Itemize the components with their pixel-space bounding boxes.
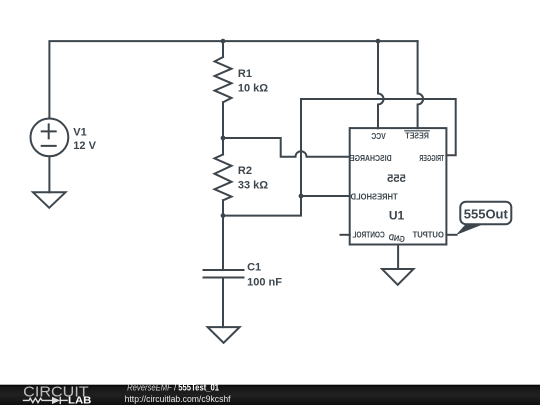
node dot threshold [299,194,304,199]
svg-text:U1: U1 [389,209,405,223]
wire R2 bottom [222,200,224,215]
svg-text:10 kΩ: 10 kΩ [238,82,268,94]
svg-text:555: 555 [387,173,406,185]
node dot rail-R1 [221,39,226,44]
svg-text:http://circuitlab.com/c9kcshf: http://circuitlab.com/c9kcshf [125,393,231,404]
wire CONTROL stub [341,234,350,236]
wire discharge net [223,138,350,157]
wire VCC vertical with hop [378,41,384,128]
wire top rail [49,41,417,118]
op-amp U1 555 body [350,128,447,244]
wire R2 top stub [222,138,224,155]
svg-text:OUTPUT: OUTPUT [412,229,444,239]
flag 555Out box [460,202,511,225]
svg-text:ReverseEMF / 555Test_01: ReverseEMF / 555Test_01 [127,382,219,393]
wire threshold branch [301,195,350,197]
voltage source V1 wire top [48,117,50,119]
flag 555Out tail [456,224,483,235]
RESET overline [405,130,429,132]
svg-text:100 nF: 100 nF [247,276,282,288]
capacitor C1 [204,270,244,278]
svg-text:12 V: 12 V [73,140,96,152]
ground below V1 [33,192,66,208]
wire R1 top stub [222,41,224,57]
svg-text:VCC: VCC [371,131,386,141]
node dot R2-C1 [221,213,226,218]
resistor R2 [215,155,232,201]
svg-text:33 kΩ: 33 kΩ [238,180,268,192]
wire GND pin [397,245,399,270]
svg-text:V1: V1 [73,126,86,138]
V1 minus sign [42,145,56,147]
svg-text:CONTROL: CONTROL [352,229,384,239]
svg-text:DISCHARGE: DISCHARGE [350,153,392,163]
ground below U1 [382,269,414,285]
resistor R1 [215,57,232,102]
svg-text:R2: R2 [238,165,252,177]
svg-text:LAB: LAB [68,395,91,405]
wire C1 bottom [222,279,224,328]
wire threshold-trigger net [223,99,456,216]
svg-text:TRIGGER: TRIGGER [419,153,444,163]
wire C1 top [222,216,224,270]
wire OUTPUT stub [446,234,456,236]
footer bar [0,385,540,405]
svg-text:C1: C1 [247,262,261,274]
svg-text:R1: R1 [238,68,252,80]
svg-text:THRESHOLD: THRESHOLD [351,191,398,201]
ground below C1 [208,327,240,343]
wire RESET vertical with hop [418,41,424,128]
node dot R1-R2 [221,136,226,141]
wire R1 bottom [222,102,224,138]
svg-text:555Out: 555Out [464,207,509,222]
logo zigzag and diode [23,397,68,404]
V1 plus sign [42,124,56,138]
node dot rail-VCC [376,39,381,44]
wire V1 bottom [48,156,50,192]
voltage source V1 [31,118,69,156]
svg-text:RESET: RESET [405,130,429,140]
